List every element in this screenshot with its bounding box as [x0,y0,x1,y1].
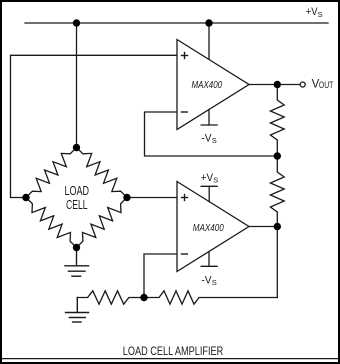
U2 pin symbol + (non-inverting input) [182,195,188,201]
resistor R4 [144,291,277,304]
svg-text:LOAD: LOAD [65,184,90,198]
node: bridge right [123,194,130,201]
bridge resistor arm top-left [26,148,77,198]
bridge resistor arm top-right [77,148,128,198]
junction dot: U2 output / R2 [274,223,281,230]
svg-text:CELL: CELL [66,198,88,212]
junction dot: rail / U1 V+ [205,19,212,26]
op-amp U1 (MAX400) body [177,40,249,130]
U1 pin symbol + (non-inverting input) [182,53,188,59]
svg-text:S: S [318,10,323,19]
caption rule [2,358,338,360]
bridge resistor arm bottom-left [26,198,77,248]
ground (R3 reference) [66,298,89,323]
U2 V+ supply pin [208,186,210,202]
junction dot: rail / bridge top [73,19,80,26]
svg-text:+V: +V [201,172,214,184]
wire: +VS supply rail [25,22,328,24]
node: bridge left [22,194,29,201]
junction dot: R3-R4 / U2 feedback [140,294,147,301]
bridge resistor arm bottom-right [77,198,128,248]
svg-text:MAX400: MAX400 [192,79,223,91]
U1 pin symbol - (inverting input) [182,111,188,113]
ground (bridge excitation return) [65,248,89,277]
wire: U2 output [249,226,277,228]
svg-text:S: S [213,176,218,185]
op-amp U2 (MAX400) body [177,182,249,272]
wire: bridge right node to U2 non-inverting input [127,197,177,199]
U2 pin symbol - (inverting input) [182,253,188,255]
svg-text:MAX400: MAX400 [193,222,224,234]
U2 V- supply pin [208,252,210,267]
terminal VOUT (open circle) [300,82,305,87]
resistor R3 [77,291,144,304]
svg-text:S: S [212,136,217,145]
svg-text:-V: -V [201,133,212,145]
U1 V- supply pin [208,110,210,126]
svg-text:OUT: OUT [319,80,334,90]
wire: rail to bridge top node [76,23,78,148]
resistor R2 [270,156,284,227]
junction dot: U1 output / R1 (VOUT node) [274,81,281,88]
wire: U2 inverting input to R3-R4 node [144,254,177,298]
svg-text:S: S [212,278,217,287]
node: bridge bottom [73,244,80,251]
wire: U1 output to VOUT terminal [249,84,300,86]
svg-text:+V: +V [306,6,318,18]
junction dot: R1-R2 / U1 feedback [274,152,281,159]
wire: U1 feedback (inverting input to R1-R2 node) [145,112,278,156]
resistor R1 [270,85,284,157]
wire: bridge left node to U1 non-inverting input [11,55,178,197]
svg-text:-V: -V [201,275,212,287]
wire: rail to U1 V+ supply pin [208,23,210,59]
node: bridge top [73,144,80,151]
wire: U2 output down to bottom feedback run [276,227,278,298]
svg-text:LOAD CELL AMPLIFIER: LOAD CELL AMPLIFIER [123,344,224,358]
